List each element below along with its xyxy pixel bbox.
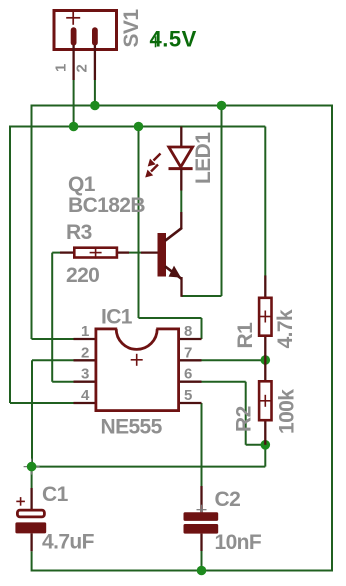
SV1 pin 2 contact	[92, 27, 98, 45]
svg-text:LED1: LED1	[192, 132, 215, 184]
collector lead	[180, 212, 182, 229]
pin 5 stub	[179, 402, 202, 404]
junction dot	[27, 462, 37, 472]
wire LED cathode to collector	[180, 191, 182, 213]
wire C1 bottom	[31, 551, 33, 571]
pin 1 stub	[74, 338, 96, 340]
junction dot	[69, 122, 79, 132]
connector SV1 body	[54, 11, 117, 50]
svg-text:R3: R3	[66, 221, 92, 244]
IC body	[96, 329, 179, 411]
wire IC pin 2	[32, 359, 74, 361]
svg-text:220: 220	[66, 264, 99, 287]
capacitor C2	[184, 486, 219, 551]
wire R2 bottom down	[264, 445, 266, 467]
svg-text:5: 5	[184, 387, 192, 404]
C2 origin cross	[197, 505, 207, 515]
svg-text:10nF: 10nF	[215, 531, 262, 554]
junction dot	[90, 101, 100, 111]
wire left plus rail x=10	[9, 126, 11, 404]
svg-text:SV1: SV1	[120, 9, 143, 48]
svg-text:100k: 100k	[276, 389, 299, 434]
wire x=138.5 down	[138, 127, 140, 319]
emission arrow 2	[151, 165, 158, 172]
resistor R1	[259, 276, 271, 361]
SV1 pin 1 lead	[72, 45, 74, 80]
junction dot	[197, 566, 207, 576]
svg-text:4.7k: 4.7k	[274, 309, 297, 348]
svg-text:NE555: NE555	[101, 416, 163, 439]
wire emitter horizontal	[182, 295, 222, 297]
anode lead	[180, 127, 182, 148]
emitter arrow	[169, 266, 181, 278]
svg-text:8: 8	[184, 323, 192, 340]
svg-text:4.5V: 4.5V	[150, 27, 197, 52]
wire R1-R2 lead over dot	[264, 355, 266, 365]
svg-text:2: 2	[81, 344, 89, 361]
wire R2 lead over dot	[264, 440, 266, 445]
svg-text:3: 3	[81, 366, 89, 383]
wire y=318 to pin8 drop	[139, 317, 202, 319]
base bar	[158, 233, 167, 277]
wire top horizontal rail y=105.5	[32, 105, 333, 107]
SV1 pin 2 lead	[94, 45, 96, 80]
C1 origin cross	[24, 459, 40, 475]
C1 top lead	[30, 488, 32, 510]
pin 8 stub	[179, 338, 202, 340]
wire x=265.3 down to R1	[264, 127, 266, 277]
C1 plus sign	[16, 497, 25, 506]
LED triangle	[169, 147, 193, 167]
wire pin2 to top rail	[94, 80, 96, 106]
svg-text:C2: C2	[215, 488, 241, 511]
C1 top plate	[17, 510, 44, 517]
wire plus horizontal rail y=126.5	[10, 126, 265, 128]
wire pin6 to R2 node	[246, 444, 266, 446]
svg-text:IC1: IC1	[101, 306, 133, 329]
C2 top lead	[200, 486, 202, 513]
resistor R3	[60, 247, 129, 259]
pin 7 stub	[179, 359, 202, 361]
pin 3 stub	[74, 381, 96, 383]
wire bottom rail y=570.5	[32, 570, 332, 572]
junction dot	[261, 355, 271, 365]
wire C2 bottom	[201, 551, 203, 571]
base lead	[141, 251, 158, 253]
junction dot	[217, 101, 227, 111]
pin 4 stub	[74, 402, 96, 404]
IC origin cross	[131, 354, 143, 366]
wire IC pin 5 drop	[201, 403, 203, 486]
collector diagonal	[165, 228, 182, 241]
cathode lead	[180, 169, 182, 191]
svg-text:2: 2	[74, 64, 91, 72]
wire to IC pin 4	[10, 402, 74, 404]
junction dot	[261, 440, 271, 450]
wire x=32 down to cap node	[31, 360, 33, 466]
C2 top plate	[184, 512, 219, 521]
wire pin6 drop x=245.7	[245, 382, 247, 445]
resistor R2	[259, 360, 271, 445]
svg-text:6: 6	[184, 366, 192, 383]
transistor Q1	[141, 212, 182, 297]
svg-text:R2: R2	[232, 406, 255, 432]
pin 2 stub	[74, 359, 96, 361]
wire to IC pin 1	[32, 338, 74, 340]
C2 bottom plate	[184, 524, 219, 534]
wire R3 right to base	[129, 252, 141, 254]
wire x=52.2 down	[51, 253, 53, 382]
junction dot	[134, 122, 144, 132]
svg-text:C1: C1	[42, 483, 69, 506]
emission arrow 1	[154, 154, 161, 161]
svg-text:1: 1	[81, 323, 89, 340]
C1 bottom lead	[30, 533, 32, 551]
pin 6 stub	[179, 381, 202, 383]
wire R3 left	[52, 252, 60, 254]
svg-text:1: 1	[53, 64, 70, 72]
LED LED1	[145, 127, 192, 191]
wire IC pin 6	[202, 381, 246, 383]
IC IC1 NE555	[74, 326, 202, 411]
C1 bottom plate	[15, 522, 46, 533]
wire left rail x=31.5 down to pin1 row	[31, 105, 33, 340]
svg-text:Q1: Q1	[68, 173, 96, 196]
svg-text:7: 7	[184, 344, 192, 361]
svg-text:4.7uF: 4.7uF	[42, 531, 95, 554]
emitter diagonal	[165, 266, 182, 279]
svg-text:BC182B: BC182B	[68, 194, 145, 217]
wire right rail x=332	[331, 105, 333, 572]
capacitor C1	[15, 459, 46, 552]
wire IC pin 7 to divider	[202, 359, 266, 361]
cathode bar	[169, 167, 193, 170]
svg-text:4: 4	[81, 387, 90, 404]
svg-text:R1: R1	[234, 322, 257, 349]
wire emitter rail x=221.5	[221, 105, 223, 297]
emitter lead	[180, 277, 182, 297]
label origin cross	[150, 36, 161, 47]
wire cap node horizontal y=466.6	[32, 466, 266, 468]
wire C1 top	[31, 467, 33, 488]
wire to IC pin 3	[52, 381, 73, 383]
wire down to IC pin 8	[201, 318, 203, 339]
SV1 polarity cross	[66, 11, 80, 25]
SV1 pin 1 contact	[71, 27, 77, 45]
wire pin1 to plus rail	[73, 80, 75, 127]
IC notch	[117, 326, 156, 331]
C2 bottom lead	[200, 534, 202, 551]
